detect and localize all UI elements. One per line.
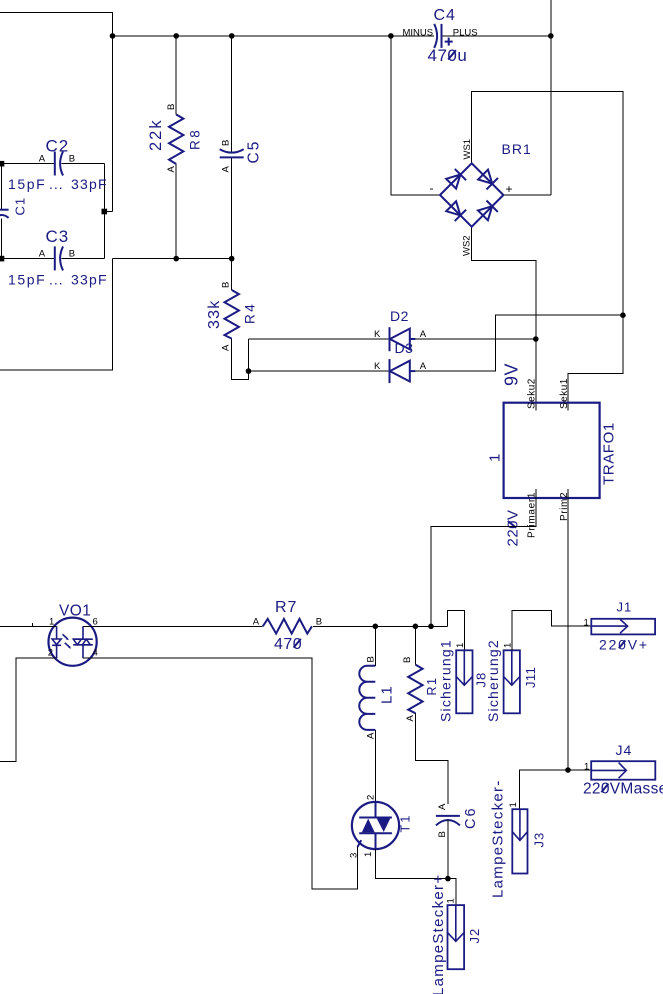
wire C4 minus down to bridge minus bbox=[391, 36, 440, 195]
svg-text:1: 1 bbox=[455, 643, 466, 648]
svg-text:Seku2: Seku2 bbox=[527, 378, 538, 409]
wire Prim2 pin down bbox=[567, 489, 569, 770]
svg-text:TRAFO1: TRAFO1 bbox=[601, 422, 618, 485]
wire R1 bottom jog to C6 bbox=[415, 713, 448, 804]
wire VO1 pin1 from left edge bbox=[0, 623, 57, 627]
node junction C5 bottom R4 top bbox=[229, 256, 235, 262]
wire R4 bottom jog up to D2 row bbox=[232, 339, 249, 380]
svg-text:WS2: WS2 bbox=[462, 235, 473, 256]
node junction at 248,371 bbox=[246, 368, 252, 374]
svg-text:R8: R8 bbox=[188, 128, 203, 150]
node junction at D2 anode column bbox=[533, 336, 539, 342]
svg-text:A: A bbox=[39, 154, 46, 165]
svg-text:LampeStecker+: LampeStecker+ bbox=[430, 874, 447, 994]
connector J4 bbox=[583, 742, 663, 798]
svg-text:L1: L1 bbox=[379, 685, 396, 704]
svg-text:B: B bbox=[69, 248, 75, 259]
svg-text:J4: J4 bbox=[616, 742, 633, 758]
capacitor C5 bbox=[220, 140, 263, 173]
svg-text:B: B bbox=[437, 831, 448, 837]
svg-text:1: 1 bbox=[584, 762, 589, 773]
svg-text:15pF: 15pF bbox=[8, 272, 46, 288]
svg-text:BR1: BR1 bbox=[502, 141, 532, 157]
diode D3 bbox=[374, 340, 427, 383]
wire junction to J2 bbox=[448, 879, 456, 906]
wire D2 cathode row bbox=[249, 338, 390, 340]
svg-text:C3: C3 bbox=[46, 227, 70, 246]
svg-text:B: B bbox=[69, 154, 75, 165]
wire D2 anode to Seku2 column bbox=[411, 338, 536, 340]
node junction at 448,879 bbox=[445, 876, 451, 882]
svg-text:C2: C2 bbox=[46, 137, 70, 156]
node junction at 568,770 bbox=[565, 767, 571, 773]
wire VO1 pin6 to R7 bbox=[83, 625, 263, 627]
node junction on box right edge bbox=[102, 209, 108, 215]
wire Primaer1 pin to 220V riser bbox=[431, 489, 536, 626]
wire from top edge to C4 plus bbox=[550, 0, 552, 195]
svg-text:Seku1: Seku1 bbox=[559, 378, 570, 409]
wire junction to J4 bbox=[568, 769, 591, 771]
svg-text:A: A bbox=[221, 344, 232, 351]
capacitor C2 bbox=[39, 137, 75, 176]
resistor R8 bbox=[147, 104, 203, 173]
svg-text:A: A bbox=[420, 329, 427, 340]
node junction at 623,315 bbox=[620, 312, 626, 318]
wire crystal box left edge with C1 bbox=[1, 164, 3, 259]
svg-text:15pF: 15pF bbox=[8, 176, 46, 192]
svg-text:-: - bbox=[430, 181, 434, 195]
connector J3 LampeStecker- bbox=[490, 779, 547, 898]
svg-text:D2: D2 bbox=[390, 308, 409, 324]
svg-text:33k: 33k bbox=[206, 300, 223, 329]
wire R7 to main junctions bbox=[313, 625, 448, 627]
svg-text:K: K bbox=[374, 329, 381, 340]
svg-text:...: ... bbox=[49, 272, 64, 288]
svg-text:4: 4 bbox=[93, 648, 98, 659]
wire bridge plus to right rail bbox=[503, 194, 550, 196]
svg-text:J11: J11 bbox=[523, 667, 538, 688]
svg-text:33pF: 33pF bbox=[71, 176, 108, 192]
capacitor C3 value bbox=[8, 272, 108, 288]
wire box stub bbox=[104, 211, 112, 213]
svg-text:B: B bbox=[221, 140, 232, 146]
svg-text:Sicherung2: Sicherung2 bbox=[485, 639, 501, 722]
wire WS1 up and right to east vertical bbox=[472, 92, 623, 411]
resistor R1 bbox=[402, 626, 439, 721]
svg-text:A: A bbox=[437, 803, 448, 810]
wire J11 step to J1 bbox=[512, 611, 592, 651]
svg-text:A: A bbox=[166, 166, 177, 173]
node junction L1 top bbox=[373, 624, 379, 630]
wire C5 branch bbox=[231, 36, 233, 259]
svg-text:220VMasse: 220VMasse bbox=[583, 781, 663, 798]
node junction box bottom-left bbox=[0, 256, 4, 262]
svg-text:220V+: 220V+ bbox=[599, 637, 649, 653]
connector J11 Sicherung2 bbox=[485, 639, 538, 722]
svg-text:MINUS: MINUS bbox=[403, 27, 434, 38]
svg-text:220V: 220V bbox=[504, 509, 521, 546]
svg-text:K: K bbox=[374, 361, 381, 372]
svg-text:J1: J1 bbox=[617, 600, 633, 615]
svg-text:C4: C4 bbox=[434, 7, 456, 24]
optocoupler VO1 bbox=[48, 603, 98, 666]
svg-text:1: 1 bbox=[487, 454, 504, 462]
capacitor C6 bbox=[436, 803, 479, 879]
svg-text:C5: C5 bbox=[246, 140, 263, 164]
node junction R8 bottom bbox=[173, 256, 179, 262]
svg-text:A: A bbox=[253, 616, 260, 627]
svg-text:470u: 470u bbox=[428, 46, 468, 65]
svg-text:J2: J2 bbox=[467, 928, 482, 944]
svg-text:WS1: WS1 bbox=[462, 139, 473, 160]
wire middle row bbox=[113, 258, 232, 260]
node junction at R8 top bbox=[173, 33, 179, 39]
svg-text:22k: 22k bbox=[147, 118, 165, 151]
wire main top horizontal rail bbox=[113, 35, 551, 37]
wire R4 top pin bbox=[231, 259, 233, 290]
capacitor C3 bbox=[39, 227, 75, 270]
svg-text:9V: 9V bbox=[502, 363, 522, 386]
svg-text:33pF: 33pF bbox=[71, 272, 108, 288]
svg-text:A: A bbox=[39, 248, 46, 259]
connector J2 LampeStecker+ bbox=[430, 874, 482, 994]
node junction 220V riser bbox=[428, 624, 434, 630]
svg-text:B: B bbox=[365, 656, 376, 662]
wire R8 branch bbox=[175, 36, 177, 259]
svg-text:...: ... bbox=[49, 176, 64, 192]
wire top-left horizontal bbox=[0, 12, 113, 211]
svg-text:Sicherung1: Sicherung1 bbox=[438, 639, 454, 722]
svg-text:C1: C1 bbox=[13, 197, 28, 216]
svg-text:3: 3 bbox=[349, 853, 360, 858]
svg-text:D3: D3 bbox=[395, 340, 414, 356]
inductor L1 bbox=[359, 626, 395, 802]
capacitor C1 bbox=[0, 197, 28, 218]
svg-text:R4: R4 bbox=[243, 302, 258, 324]
triac T1 bbox=[349, 795, 413, 858]
connector J8 Sicherung1 bbox=[438, 639, 489, 722]
wire VO1 pin4 gate path bbox=[83, 658, 358, 889]
svg-text:1: 1 bbox=[446, 898, 457, 903]
svg-text:B: B bbox=[221, 282, 232, 288]
node junction R1 top bbox=[413, 624, 419, 630]
svg-text:C6: C6 bbox=[463, 806, 479, 829]
svg-text:+: + bbox=[506, 182, 513, 196]
wire D3 cathode row bbox=[249, 370, 390, 372]
svg-text:1: 1 bbox=[584, 617, 589, 628]
bridge rectifier BR1 bbox=[430, 139, 532, 256]
diode D2 bbox=[374, 308, 427, 351]
svg-text:T1: T1 bbox=[399, 814, 413, 833]
transformer TRAFO1 bbox=[487, 363, 618, 547]
svg-text:1: 1 bbox=[508, 802, 519, 807]
svg-text:B: B bbox=[166, 104, 177, 110]
svg-text:A: A bbox=[365, 732, 376, 739]
wire crystal box right edge bbox=[103, 164, 105, 259]
node junction box top-left bbox=[0, 161, 4, 167]
node junction at C4 minus bbox=[388, 33, 394, 39]
svg-text:B: B bbox=[402, 657, 413, 663]
svg-text:A: A bbox=[420, 361, 427, 372]
svg-text:1: 1 bbox=[363, 852, 374, 857]
svg-text:A: A bbox=[405, 715, 416, 722]
capacitor C2 value bbox=[8, 176, 108, 192]
wire WS2 down to Seku2 bbox=[472, 227, 536, 411]
wire T1 pin1 to C6 bottom junction bbox=[376, 849, 448, 879]
wire left from junction down to J3 bbox=[520, 770, 569, 809]
node junction at C5 top bbox=[229, 33, 235, 39]
svg-text:J3: J3 bbox=[532, 832, 547, 848]
connector J1 bbox=[584, 600, 656, 653]
wire crystal box top edge with C2 bbox=[2, 163, 105, 165]
wire left drop to bottom-left bbox=[0, 259, 113, 371]
svg-text:470: 470 bbox=[274, 636, 302, 653]
svg-text:A: A bbox=[221, 166, 232, 173]
svg-text:LampeStecker-: LampeStecker- bbox=[490, 779, 507, 898]
node junction at C4 plus bbox=[548, 33, 554, 39]
wire D3 anode up over to east vertical bbox=[411, 315, 623, 371]
node junction at 112,36 bbox=[110, 33, 116, 39]
wire VO1 pin2 to left and down bbox=[0, 658, 57, 761]
svg-text:VO1: VO1 bbox=[59, 603, 91, 620]
svg-text:R7: R7 bbox=[275, 599, 297, 616]
svg-text:B: B bbox=[316, 616, 322, 627]
capacitor C4 bbox=[403, 7, 478, 65]
svg-text:PLUS: PLUS bbox=[453, 27, 478, 38]
resistor R4 bbox=[206, 282, 258, 351]
wire crystal box bottom edge with C3 bbox=[2, 258, 105, 260]
resistor R7 bbox=[253, 599, 322, 653]
svg-text:2: 2 bbox=[365, 795, 376, 800]
svg-text:2: 2 bbox=[48, 648, 53, 659]
wire step to J8 bbox=[448, 611, 465, 651]
